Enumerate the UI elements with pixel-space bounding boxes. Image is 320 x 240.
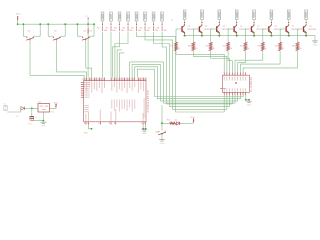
svg-text:R6: R6 <box>140 28 142 30</box>
svg-text:PN2222A: PN2222A <box>256 28 264 31</box>
resistor R7 <box>153 26 155 31</box>
resistor R8 <box>161 26 163 31</box>
microcontroller U1 left pins <box>81 82 84 84</box>
wire MCU GND pins down <box>143 125 146 129</box>
switch S4 (reset) <box>158 131 159 132</box>
wire T4 base to resistor R12 <box>228 28 234 30</box>
wire T3 emitter to rail <box>218 34 220 35</box>
svg-text:R8: R8 <box>157 28 159 30</box>
wire S4 to ground <box>161 135 163 139</box>
svg-text:330: 330 <box>104 30 107 32</box>
wire R8 net to IC2 input <box>162 32 232 104</box>
supply VCC (regulator output) <box>55 104 56 105</box>
wire pad to transistor T8 collector <box>305 20 307 25</box>
microcontroller U1 ATMEGA8515 outline <box>84 81 146 122</box>
wire reset to R17 <box>162 122 170 124</box>
svg-text:GND: GND <box>160 143 165 145</box>
transistor T1 <box>181 26 183 32</box>
node VCC rail junction <box>17 23 19 25</box>
wire pad to transistor T6 collector <box>270 20 272 25</box>
svg-text:PN2222A: PN2222A <box>274 28 282 31</box>
wire MCU VCC pin to supply <box>88 125 91 129</box>
svg-text:1k: 1k <box>195 48 197 50</box>
svg-text:R2: R2 <box>106 28 108 30</box>
wire pad to resistor R5 <box>136 21 138 25</box>
wire T3 base to resistor R11 <box>211 28 217 30</box>
wire R6 net to IC2 input <box>145 32 227 110</box>
microcontroller U1 top pins <box>83 78 85 81</box>
resistor R17 <box>170 122 176 124</box>
wire pad to resistor R7 <box>153 21 155 25</box>
svg-text:PN2222A: PN2222A <box>222 28 230 31</box>
wire pad to transistor T7 collector <box>288 20 290 25</box>
wire rail to ground <box>314 36 316 41</box>
svg-text:R3: R3 <box>114 28 116 30</box>
resistor R14 <box>261 42 264 50</box>
svg-text:PN2222A: PN2222A <box>204 28 212 31</box>
wire T2 emitter to rail <box>201 34 203 35</box>
wire D2 to VCC <box>180 122 194 124</box>
wire T1 base to resistor R9 <box>176 28 182 30</box>
wire MCU PD5 to IC2 input <box>135 67 241 99</box>
resistor R3 <box>119 26 121 31</box>
svg-text:1k: 1k <box>282 48 284 50</box>
wire R7 net to IC2 input <box>154 32 230 107</box>
svg-text:PN2222A: PN2222A <box>239 28 247 31</box>
node emitter junction T7 <box>288 35 290 37</box>
wire C1 to ground rail <box>32 119 44 121</box>
wire aux net 2 to MCU pin (fan) <box>119 53 124 78</box>
resistor R1 <box>102 26 104 31</box>
svg-text:1k: 1k <box>300 48 302 50</box>
connector pad COL8 <box>305 10 308 20</box>
svg-text:7805: 7805 <box>50 111 54 113</box>
svg-text:D2: D2 <box>175 119 177 121</box>
svg-text:1k: 1k <box>178 48 180 50</box>
connector pad COL4 <box>235 10 238 20</box>
node GND junction below MCU <box>142 128 144 130</box>
svg-text:R10: R10 <box>188 45 191 47</box>
wire T5 emitter to rail <box>253 34 255 35</box>
ground rail GND symbol <box>312 40 318 42</box>
wire R10 net to IC2 output <box>193 51 227 73</box>
node S1 junction on rail <box>23 23 25 25</box>
wire reset junction to switch S4 <box>161 123 163 130</box>
switch S2 <box>47 24 49 36</box>
node emitter junction T8 <box>305 35 307 37</box>
node S3 junction on rail <box>77 23 79 25</box>
svg-text:1k: 1k <box>230 48 232 50</box>
wire switch top rail <box>18 23 94 25</box>
ground power section <box>41 121 47 123</box>
ground below MCU <box>142 129 148 131</box>
wire IC2 GND pin to ground <box>246 95 249 100</box>
supply VCC (reset) <box>193 118 194 119</box>
wire pad to resistor R2 <box>110 21 112 25</box>
svg-text:ATMEGA8515P: ATMEGA8515P <box>146 89 150 112</box>
wire S1 to MCU pin <box>30 41 84 78</box>
connector pad LED2 <box>110 12 113 21</box>
diode D1 <box>21 107 24 110</box>
svg-text:R12: R12 <box>223 45 226 47</box>
svg-text:10k: 10k <box>89 30 92 32</box>
wire R12 net to IC2 output <box>228 51 232 73</box>
microcontroller U1 left lower labels <box>84 104 88 107</box>
svg-text:330: 330 <box>129 30 132 32</box>
svg-text:330: 330 <box>146 30 149 32</box>
svg-text:R4: R4 <box>123 28 125 30</box>
wire pad to resistor R6 <box>144 21 146 25</box>
node VCC junction below MCU <box>91 128 93 130</box>
wire pad to resistor R3 <box>119 21 121 25</box>
wire pad to resistor R1 <box>102 21 104 25</box>
pin header JP1 (VCC sense) <box>87 19 89 25</box>
wire T7 emitter to rail <box>288 34 290 35</box>
ground below IC2 <box>246 100 252 102</box>
transistor T6 <box>268 26 270 32</box>
node emitter junction T2 <box>201 35 203 37</box>
wire emitter ground rail <box>185 35 315 37</box>
connector pad LED1 <box>101 12 104 21</box>
transistor T3 <box>216 26 218 32</box>
resistor R18 (pull-up) <box>87 29 89 34</box>
svg-text:X1: X1 <box>4 103 6 105</box>
svg-text:IC1: IC1 <box>38 102 41 104</box>
driver IC2 ULN2803 outline <box>223 75 250 92</box>
wire R14 net to IC2 output <box>235 51 263 73</box>
svg-text:C1: C1 <box>35 117 37 119</box>
svg-text:R11: R11 <box>205 45 208 47</box>
connector pad LED4 <box>127 12 130 21</box>
svg-text:330: 330 <box>112 30 115 32</box>
connector pad COL6 <box>270 10 273 20</box>
microcontroller U1 inner right label <box>144 98 145 118</box>
wire pad to transistor T1 collector <box>184 20 186 25</box>
svg-text:VCC: VCC <box>190 117 195 119</box>
wire T8 base to resistor R16 <box>298 28 304 30</box>
wire R11 net to IC2 output <box>211 51 230 73</box>
resistor R13 <box>244 42 247 50</box>
svg-text:1k: 1k <box>213 48 215 50</box>
wire R4 net to MCU <box>115 32 128 78</box>
svg-text:1k: 1k <box>265 48 267 50</box>
wire IC1 output to VCC <box>50 107 57 108</box>
node C1 junction <box>31 107 33 109</box>
wire pad to transistor T4 collector <box>236 20 238 25</box>
wire T1 emitter to rail <box>184 34 186 35</box>
node emitter junction T6 <box>270 35 272 37</box>
connector pad COL1 <box>183 10 186 20</box>
wire D1 to regulator IC1 <box>25 107 38 109</box>
microcontroller U1 bottom pin labels <box>84 114 87 121</box>
node emitter junction T5 <box>253 35 255 37</box>
wire R5 net to IC2 input <box>137 32 225 112</box>
resistor R15 <box>279 42 282 50</box>
resistor R16 <box>296 42 299 50</box>
wire VCC to switch rail <box>17 20 19 24</box>
connector pad LED7 <box>152 12 155 21</box>
svg-text:VCC: VCC <box>54 102 59 104</box>
diode D2 <box>176 122 179 125</box>
connector pad COL5 <box>253 10 256 20</box>
wire S2 to MCU pin <box>57 41 87 78</box>
wire R15 net to IC2 output <box>240 51 280 73</box>
svg-text:VCC: VCC <box>84 133 89 135</box>
node emitter junction T4 <box>236 35 238 37</box>
svg-text:R5: R5 <box>131 28 133 30</box>
wire T7 base to resistor R15 <box>280 28 286 30</box>
svg-text:PN2222A: PN2222A <box>187 28 195 31</box>
resistor R6 <box>144 26 146 31</box>
wire R18 to MCU pin <box>87 24 89 28</box>
wire T8 emitter to rail <box>305 34 307 35</box>
svg-text:R13: R13 <box>240 45 243 47</box>
svg-text:ULN2803A: ULN2803A <box>250 77 253 92</box>
svg-text:330: 330 <box>155 30 158 32</box>
wire IC1 ground pin <box>42 112 44 121</box>
transistor T4 <box>233 26 235 32</box>
wire T6 base to resistor R14 <box>263 28 269 30</box>
connector pad COL3 <box>218 10 221 20</box>
svg-text:330: 330 <box>121 30 124 32</box>
svg-text:R1: R1 <box>97 28 99 30</box>
wire pad to transistor T2 collector <box>201 20 203 25</box>
resistor R12 <box>227 42 230 50</box>
wire MCU PD6 to IC2 input <box>132 65 238 101</box>
svg-text:100u: 100u <box>28 123 32 125</box>
resistor R4 <box>127 26 129 31</box>
voltage regulator IC1 7805 <box>38 104 50 113</box>
microcontroller U1 inner port labels <box>110 100 113 109</box>
node S2 junction on rail <box>47 23 49 25</box>
wire MCU PD4 to IC2 input <box>137 69 243 96</box>
connector pad LED8 <box>161 12 164 21</box>
node emitter junction T1 <box>184 35 186 37</box>
resistor R2 <box>110 26 112 31</box>
wire R1 net to MCU <box>102 32 104 78</box>
wire pad to resistor R8 <box>161 21 163 25</box>
node rail end junction <box>87 23 89 25</box>
svg-text:R16: R16 <box>292 45 295 47</box>
transistor T5 <box>250 26 252 32</box>
wire X1 to diode D1 <box>7 108 21 112</box>
wire T4 emitter to rail <box>236 34 238 35</box>
wire pad to transistor T3 collector <box>218 20 220 25</box>
svg-text:R17: R17 <box>167 120 170 122</box>
wire R17 to D2 <box>175 122 178 124</box>
resistor R10 <box>192 42 195 50</box>
node emitter junction T3 <box>218 35 220 37</box>
capacitor C1 <box>30 116 34 118</box>
driver IC2 pins <box>223 72 225 75</box>
resistor R9 <box>175 42 178 50</box>
svg-text:R15: R15 <box>275 45 278 47</box>
wire T5 base to resistor R13 <box>245 28 251 30</box>
wire T2 base to resistor R10 <box>193 28 199 30</box>
svg-text:GND: GND <box>247 105 252 107</box>
connector pad LED3 <box>118 12 121 21</box>
wire R3 net to MCU <box>113 32 120 78</box>
svg-text:R14: R14 <box>257 45 260 47</box>
svg-text:GND: GND <box>142 133 147 135</box>
driver IC2 left pin <box>220 88 222 90</box>
wire MCU PD7 to IC2 input <box>130 62 235 103</box>
wire R2 net to MCU <box>110 32 112 78</box>
wire R16 net to IC2 output <box>243 51 297 73</box>
switch S3 <box>76 24 78 36</box>
ground below S4 <box>159 139 165 141</box>
svg-text:R9: R9 <box>171 45 173 47</box>
connector pad LED6 <box>144 12 147 21</box>
node IC2 ground junctions <box>245 99 247 101</box>
connector X1 power input <box>4 105 7 110</box>
node regulator ground junction <box>43 120 45 122</box>
wire pad to transistor T5 collector <box>253 20 255 25</box>
node reset junction <box>161 122 163 124</box>
resistor R11 <box>209 42 212 50</box>
svg-text:PN2222A: PN2222A <box>309 28 317 31</box>
transistor T2 <box>198 26 200 32</box>
wire pad to resistor R4 <box>127 21 129 25</box>
svg-text:1k: 1k <box>247 48 249 50</box>
svg-text:GND: GND <box>313 44 318 46</box>
wire aux net to MCU pin (fan) <box>117 50 122 78</box>
svg-text:R7: R7 <box>148 28 150 30</box>
resistor R5 <box>136 26 138 31</box>
wire S3 to MCU pin <box>86 41 92 78</box>
connector pad COL2 <box>201 10 204 20</box>
wire junction to capacitor C1 <box>31 108 33 116</box>
svg-text:GND: GND <box>41 126 46 128</box>
transistor T7 <box>285 26 287 32</box>
wire MCU reset net <box>161 105 163 123</box>
connector pad COL7 <box>287 10 290 20</box>
svg-text:VCC: VCC <box>16 13 21 15</box>
svg-text:PN2222A: PN2222A <box>291 28 299 31</box>
wire R9 net to IC2 output <box>176 51 224 73</box>
driver IC2 center mark <box>235 82 237 84</box>
connector pad LED5 <box>135 12 138 21</box>
transistor T8 <box>303 26 305 32</box>
svg-text:330: 330 <box>163 30 166 32</box>
switch S1 <box>22 24 24 36</box>
svg-text:330: 330 <box>138 30 141 32</box>
microcontroller U1 bottom pins <box>85 122 87 125</box>
wire T6 emitter to rail <box>270 34 272 35</box>
svg-text:D1: D1 <box>16 116 18 118</box>
wire R13 net to IC2 output <box>238 51 246 73</box>
